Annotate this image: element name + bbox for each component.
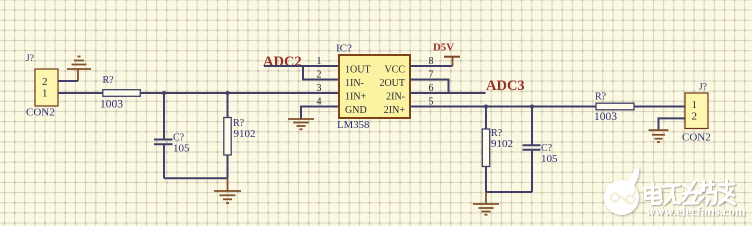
svg-text:CON2: CON2 (682, 132, 711, 144)
svg-text:2: 2 (42, 76, 48, 88)
resistor R? 1003 right (594, 92, 634, 124)
svg-text:1003: 1003 (594, 111, 617, 123)
svg-text:VCC: VCC (384, 64, 405, 75)
ground at right J? (649, 130, 669, 142)
svg-text:IC?: IC? (336, 43, 352, 55)
svg-text:J?: J? (26, 54, 34, 64)
watermark logo (604, 167, 639, 215)
wire IC pin5 to R1003 right (410, 106, 596, 108)
junction node (226, 91, 230, 95)
svg-text:1: 1 (692, 99, 698, 111)
wire bottom left RC (164, 177, 228, 179)
svg-text:1: 1 (317, 56, 322, 67)
svg-text:4: 4 (317, 97, 322, 108)
svg-text:2IN-: 2IN- (386, 91, 405, 102)
wire ADC2 stub to IC pin1 (264, 65, 339, 67)
power port D5V (433, 42, 460, 67)
capacitor C? 105 right (523, 107, 559, 193)
resistor R? 1003 left (100, 75, 140, 111)
wire IC pin6 / ADC3 stub (410, 92, 486, 94)
svg-text:2IN+: 2IN+ (384, 105, 406, 116)
svg-text:R?: R? (595, 92, 607, 103)
junction node (162, 91, 166, 95)
op-amp IC? LM358 (336, 43, 410, 132)
resistor R? 9102 right (482, 107, 513, 193)
wire IC pin4 GND (301, 107, 339, 119)
ground right RC (473, 192, 499, 215)
svg-text:1003: 1003 (100, 99, 123, 111)
wire IC pin8 to D5V (410, 65, 453, 67)
svg-text:9102: 9102 (234, 128, 256, 140)
connector J? CON2 left (26, 54, 58, 119)
wire R1003 to IC pin3 (141, 92, 339, 94)
watermark text dian zi fa shao you (645, 181, 735, 205)
svg-text:CON2: CON2 (26, 107, 55, 119)
wire feedback pin1 to pin2 (303, 66, 339, 80)
svg-text:D5V: D5V (433, 42, 454, 54)
capacitor C? 105 left (154, 93, 190, 178)
svg-text:1IN-: 1IN- (345, 78, 364, 89)
svg-text:1: 1 (42, 88, 48, 100)
junction node (530, 105, 534, 109)
svg-text:LM358: LM358 (337, 119, 369, 131)
svg-text:3: 3 (317, 83, 322, 94)
svg-text:J?: J? (699, 83, 707, 93)
svg-text:R?: R? (103, 75, 115, 86)
svg-text:1IN+: 1IN+ (345, 91, 367, 102)
wire R1003 to connector J? right (634, 106, 685, 108)
svg-text:1OUT: 1OUT (345, 64, 371, 75)
svg-text:105: 105 (173, 143, 190, 155)
wire pin2 of J? to ground (58, 80, 78, 82)
svg-text:GND: GND (345, 105, 367, 116)
connector J? CON2 right (682, 83, 711, 144)
ground left RC (214, 178, 241, 203)
watermark logo pads (611, 188, 637, 204)
wire bottom right RC (486, 191, 532, 193)
svg-text:9102: 9102 (491, 138, 513, 150)
svg-text:105: 105 (541, 153, 558, 165)
wire IC pin7 feedback (410, 80, 449, 94)
svg-text:2OUT: 2OUT (379, 78, 405, 89)
resistor R? 9102 left (224, 93, 256, 178)
svg-text:www.elecfans.com: www.elecfans.com (646, 205, 746, 219)
junction node (484, 105, 488, 109)
wire pin2 of right J? to ground (659, 118, 686, 130)
svg-text:2: 2 (317, 70, 322, 81)
svg-text:ADC3: ADC3 (486, 78, 525, 94)
svg-text:2: 2 (692, 111, 698, 123)
ground at IC pin4 (288, 119, 314, 129)
svg-text:ADC2: ADC2 (263, 54, 302, 70)
wire pin1 of J? to resistor R? 1003 (58, 92, 103, 94)
ground (inverted) at J? (67, 57, 91, 82)
